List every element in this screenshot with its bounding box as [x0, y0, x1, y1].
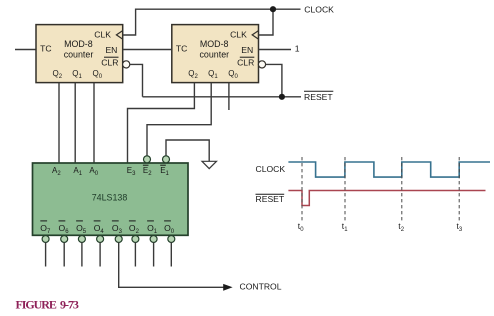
svg-text:t1: t1 [342, 221, 348, 233]
wire RESET net [130, 64, 301, 96]
arrowhead CONTROL [223, 284, 232, 291]
svg-text:EN: EN [241, 45, 253, 55]
counter U2 MOD-8 [172, 25, 259, 83]
decoder output labels O7..O0 [40, 221, 174, 235]
decoder U3 74LS138 [33, 163, 189, 235]
wire U2 Q1 to E2 [147, 83, 211, 156]
waveform CLOCK trace [288, 162, 490, 177]
svg-text:CLOCK: CLOCK [256, 164, 286, 174]
pin CLR bubble of U2 [258, 61, 265, 68]
svg-text:TC: TC [176, 44, 187, 54]
waveform RESET trace [288, 191, 485, 206]
node junction on RESET [279, 94, 285, 100]
svg-text:TC: TC [40, 44, 51, 54]
waveform RESET label (active-low) [256, 194, 285, 204]
ground [202, 161, 217, 168]
svg-text:MOD-8: MOD-8 [200, 39, 229, 49]
pin E2 bubble [144, 156, 151, 163]
pin E1 bubble [163, 156, 170, 163]
wire U1 EN to U2 TC [123, 49, 172, 51]
svg-text:FIGURE 9-73: FIGURE 9-73 [16, 298, 79, 312]
pin O0 bubble and stub [168, 236, 175, 267]
svg-text:1: 1 [295, 44, 300, 54]
pin O6 bubble and stub [61, 236, 68, 267]
svg-text:CLK: CLK [230, 30, 247, 40]
pin O3 bubble [115, 236, 122, 243]
pin O1 bubble and stub [150, 236, 157, 267]
pin CLR bubble of U1 [123, 61, 130, 68]
svg-text:t3: t3 [457, 221, 463, 233]
wire U2 EN to logic 1 [259, 49, 292, 51]
svg-text:CLOCK: CLOCK [304, 4, 334, 14]
svg-text:counter: counter [64, 50, 94, 60]
svg-text:t2: t2 [398, 221, 404, 233]
timeline t1 dashed [344, 157, 346, 221]
pin CLK arrow of U1 [116, 31, 122, 39]
wire U1 Q0 to A0 [93, 83, 95, 163]
wire U1 Q1 to A1 [74, 83, 76, 163]
counter U1 MOD-8 [36, 25, 123, 83]
timeline t2 dashed [401, 157, 403, 221]
svg-text:MOD-8: MOD-8 [64, 39, 93, 49]
svg-text:RESET: RESET [304, 92, 333, 102]
wire U2 Q2 to E3 [128, 83, 195, 163]
timeline t0 dashed [301, 157, 303, 221]
node junction on CLOCK [270, 6, 276, 12]
svg-text:CLR: CLR [237, 57, 254, 67]
wire O3 to CONTROL [119, 243, 226, 288]
svg-text:RESET: RESET [256, 194, 285, 204]
pin O2 bubble and stub [132, 236, 139, 267]
pin O4 bubble and stub [97, 236, 104, 267]
svg-text:EN: EN [105, 45, 117, 55]
pin O7 bubble and stub [42, 236, 49, 267]
wire U1 Q2 to A2 [58, 83, 60, 163]
wire E1 to ground [166, 140, 209, 161]
label RESET (active-low) [304, 91, 333, 102]
wire U2 Q0 stub [228, 83, 230, 110]
pin CLK arrow of U2 [252, 31, 258, 39]
svg-text:CONTROL: CONTROL [240, 282, 282, 292]
wire CLOCK net [123, 9, 301, 35]
timeline t3 dashed [458, 157, 460, 221]
wire TC stub of U1 [15, 49, 36, 51]
svg-text:t0: t0 [298, 221, 304, 233]
svg-text:CLR: CLR [101, 57, 118, 67]
svg-text:CLK: CLK [94, 30, 111, 40]
svg-text:74LS138: 74LS138 [92, 193, 128, 203]
svg-text:counter: counter [199, 50, 229, 60]
pin O5 bubble and stub [78, 236, 85, 267]
